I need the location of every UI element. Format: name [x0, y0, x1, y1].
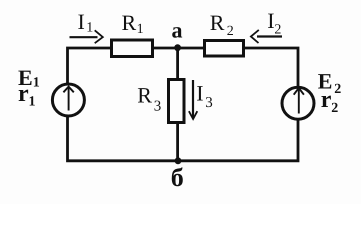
svg-text:R: R: [122, 10, 137, 35]
svg-text:2: 2: [227, 24, 234, 39]
svg-text:1: 1: [137, 22, 144, 37]
svg-text:I: I: [196, 81, 203, 106]
svg-text:2: 2: [331, 101, 338, 116]
svg-text:2: 2: [334, 82, 341, 97]
svg-text:2: 2: [274, 23, 281, 38]
svg-text:1: 1: [33, 76, 40, 91]
svg-text:б: б: [171, 163, 184, 192]
svg-text:3: 3: [205, 95, 213, 111]
svg-text:3: 3: [154, 99, 162, 115]
svg-text:r: r: [18, 81, 29, 107]
svg-text:r: r: [321, 87, 332, 113]
svg-text:1: 1: [29, 95, 36, 110]
svg-text:а: а: [172, 18, 183, 43]
svg-text:1: 1: [86, 21, 93, 36]
svg-text:R: R: [210, 10, 225, 35]
svg-text:I: I: [78, 9, 85, 34]
svg-text:R: R: [137, 83, 152, 108]
